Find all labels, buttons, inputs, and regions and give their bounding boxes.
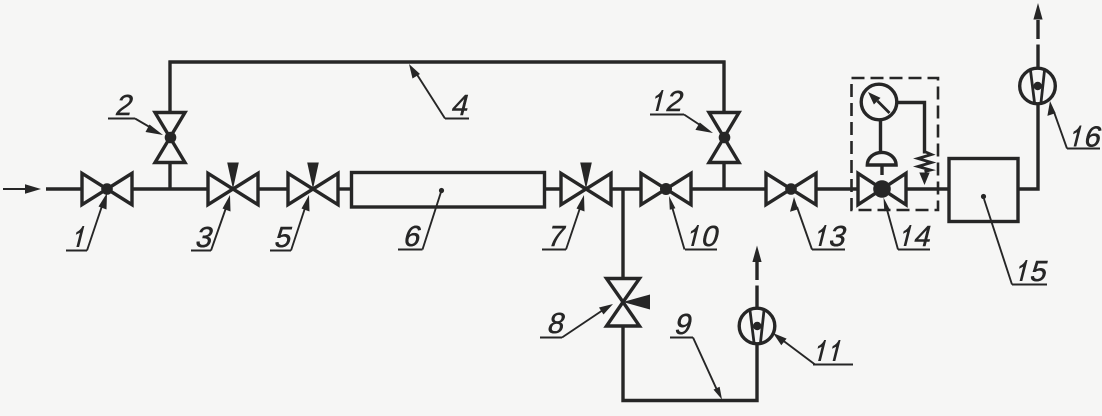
svg-text:0: 0 [699, 220, 723, 252]
label 9 [670, 308, 722, 399]
valve 8 (vertical needle valve) [607, 279, 651, 327]
label 11 [773, 333, 853, 365]
svg-text:4: 4 [449, 89, 473, 121]
wire: valve 10 to valve 13 [691, 187, 766, 190]
valve 1 (ball valve) [82, 173, 132, 204]
label 4 [409, 64, 472, 122]
wire: device 15 to rotameter 16 [1018, 103, 1038, 189]
label 6 [398, 188, 444, 253]
valve 3 (needle valve) [208, 163, 258, 205]
label 2 [108, 89, 163, 135]
label 13 [790, 197, 850, 253]
svg-text:5: 5 [1027, 255, 1051, 287]
wire: valve 3 to valve 5 [257, 187, 288, 190]
svg-text:9: 9 [672, 308, 695, 340]
wire: regulator 14 to device 15 [906, 187, 949, 190]
label 16 [1047, 101, 1102, 153]
wire: valve 2 up to bypass line [168, 61, 171, 115]
regulator valve 14 (with diaphragm actuator) [858, 173, 906, 204]
spring (zigzag) of unit 14 [918, 152, 932, 172]
svg-text:7: 7 [545, 220, 568, 252]
wire: bypass line 4 (top horizontal) [169, 60, 726, 63]
element 6 (straight pipe section rectangle) [352, 173, 545, 208]
label 1 [66, 193, 107, 251]
actuator dome of valve 14 [867, 152, 896, 165]
svg-text:3: 3 [826, 220, 850, 252]
label 8 [540, 304, 613, 340]
wire: valve 13 to regulator 14 [816, 187, 858, 190]
svg-text:2: 2 [113, 89, 136, 121]
label 14 [884, 198, 935, 253]
valve 7 (needle valve) [561, 163, 611, 205]
vent line above rotameter 11 (dashed with arrow) [752, 246, 761, 310]
label 7 [542, 195, 585, 253]
wire: valve 12 to main line [722, 161, 725, 189]
valve 12 (vertical ball valve) [709, 113, 739, 163]
spring arrow to pipe [919, 173, 929, 186]
valve 13 (ball valve) [766, 173, 816, 204]
stem: dome to valve 14 [880, 165, 883, 175]
svg-text:6: 6 [401, 220, 425, 252]
wire: valve 5 to element 6 [338, 187, 352, 190]
valve 5 (needle valve) [288, 163, 338, 205]
label 12 [650, 85, 713, 133]
svg-text:3: 3 [193, 221, 217, 253]
rotameter 11 (flow indicator) [739, 308, 775, 344]
wire: riser to valve 2 [168, 161, 171, 189]
vent line above rotameter 16 (dashed with arrow) [1033, 3, 1042, 68]
valve 10 (ball valve) [641, 173, 691, 204]
wire: branch down to valve 8 [621, 189, 624, 279]
label 10 [669, 196, 722, 253]
wire: inlet to valve 1 [46, 187, 83, 190]
label 5 [270, 195, 310, 254]
inlet flow arrow [3, 184, 41, 194]
svg-text:2: 2 [663, 85, 686, 117]
wire: bypass down to valve 12 [722, 61, 725, 115]
wire: valve 7 to valve 10 [611, 187, 641, 190]
wire: line 9 (valve 8 down, across bottom, up to rotameter 11) [623, 326, 757, 401]
wire: valve 1 to valve 3 [131, 187, 207, 190]
wire: element 6 to valve 7 [545, 187, 562, 190]
stem: gauge to dome [879, 119, 882, 152]
dashed enclosure box of unit 14 [852, 78, 939, 210]
label 3 [191, 195, 231, 254]
impulse line from gauge to spring [896, 103, 925, 154]
svg-text:4: 4 [911, 220, 935, 252]
device 15 (box) [949, 159, 1018, 222]
label 15 [981, 194, 1051, 288]
rotameter 16 (flow indicator) [1020, 68, 1056, 104]
pressure gauge of unit 14 [861, 84, 897, 120]
valve 2 (vertical ball valve) [155, 113, 185, 163]
